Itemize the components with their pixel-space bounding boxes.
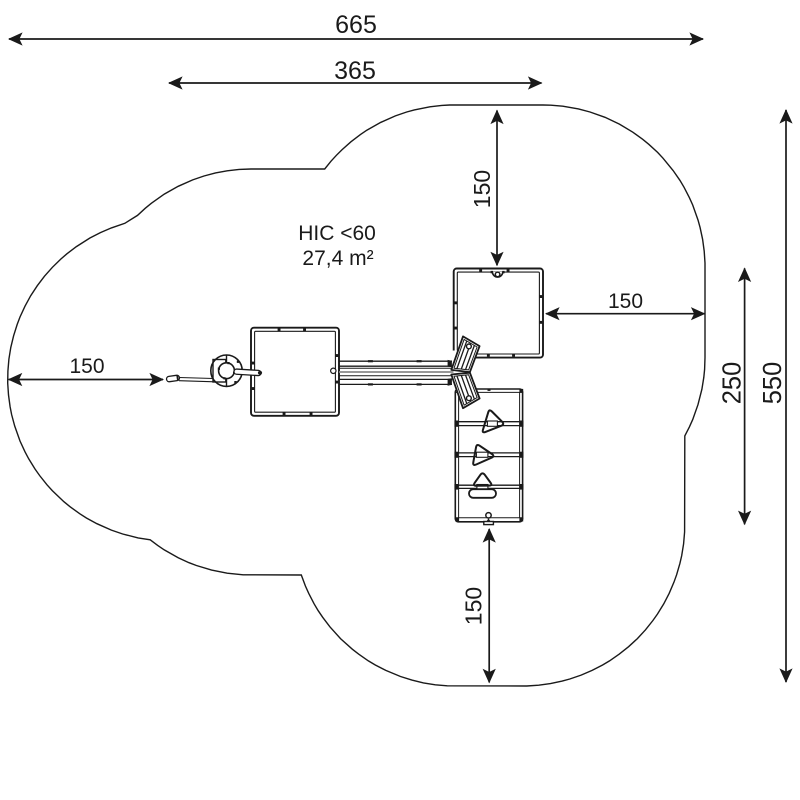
climbing foothold bar: [469, 489, 496, 498]
safety zone outline: [8, 105, 705, 686]
dimension 250 line: [738, 267, 751, 525]
svg-text:150: 150: [461, 587, 487, 625]
spinner wheel: [211, 355, 242, 386]
dimension 150 bottom line: [483, 528, 496, 683]
svg-text:665: 665: [335, 11, 377, 39]
svg-text:27,4 m²: 27,4 m²: [302, 247, 373, 270]
dimension 550 line: [779, 109, 792, 683]
access pole: [166, 375, 215, 383]
dimension 365 line: [168, 76, 543, 89]
top platform clamp: [491, 271, 505, 277]
climbing frame rungs: [454, 421, 523, 490]
bridge rails: [339, 360, 454, 386]
left platform edge fastener: [331, 368, 336, 373]
svg-text:150: 150: [69, 355, 104, 378]
upper ramp: [451, 336, 479, 372]
climbing frame anchor: [484, 513, 494, 525]
dimension 665 line: [8, 32, 704, 45]
climbing frame: [455, 389, 523, 522]
left platform deck: [251, 328, 339, 416]
top platform deck: [454, 269, 543, 358]
lower ramp: [451, 373, 479, 409]
svg-text:365: 365: [334, 57, 376, 85]
svg-text:550: 550: [759, 362, 787, 405]
climbing hold triangle 2: [473, 445, 493, 465]
svg-text:150: 150: [469, 170, 495, 208]
svg-text:250: 250: [719, 362, 747, 405]
dimension 150 left line: [8, 373, 164, 386]
climbing hold triangle 1: [483, 410, 503, 432]
dimension 150 top line: [490, 110, 503, 267]
spinner handle bar: [234, 369, 262, 376]
corner patch: [449, 351, 458, 368]
climbing hold triangle 3: [474, 473, 491, 485]
dimension 150 right line: [545, 307, 706, 320]
svg-text:HIC <60: HIC <60: [298, 222, 376, 245]
svg-text:150: 150: [608, 290, 643, 313]
